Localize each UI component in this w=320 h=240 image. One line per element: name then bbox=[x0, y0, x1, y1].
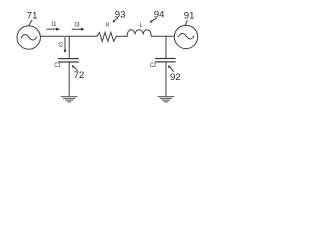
svg-text:I3: I3 bbox=[74, 22, 80, 29]
svg-text:I1: I1 bbox=[51, 21, 57, 28]
resistor R bbox=[97, 32, 117, 41]
svg-text:I2: I2 bbox=[58, 42, 63, 49]
ground (below C2) bbox=[158, 97, 174, 102]
label 92 with leader arrow bbox=[168, 65, 181, 83]
label 94 with leader arrow bbox=[149, 9, 165, 22]
node A junction vertical wire bbox=[68, 36, 70, 58]
capacitor C2 bbox=[156, 59, 176, 62]
label 72 with leader arrow bbox=[72, 65, 85, 81]
current arrow I1 bbox=[47, 21, 60, 31]
svg-text:C1: C1 bbox=[54, 62, 60, 69]
label 91 bbox=[184, 11, 195, 26]
svg-text:L: L bbox=[140, 22, 143, 29]
node B junction vertical wire bbox=[165, 36, 167, 58]
current arrow I3 bbox=[72, 22, 85, 31]
wire (C1 to ground) bbox=[68, 62, 70, 95]
ground (below C1) bbox=[61, 97, 77, 102]
svg-text:92: 92 bbox=[170, 72, 181, 83]
inductor L bbox=[127, 30, 152, 37]
svg-text:R: R bbox=[106, 22, 109, 29]
AC source U1 (left) bbox=[17, 26, 40, 49]
capacitor C1 bbox=[59, 59, 79, 62]
AC source U2 (right) bbox=[174, 25, 197, 48]
wire (source 71 to junction A) bbox=[40, 35, 69, 37]
wire (resistor to inductor) bbox=[116, 35, 127, 37]
wire (C2 to ground) bbox=[165, 62, 167, 95]
svg-text:91: 91 bbox=[184, 11, 195, 22]
wire (junction A to resistor) bbox=[69, 35, 97, 37]
current arrow I2 bbox=[58, 38, 66, 54]
label 93 with leader arrow bbox=[112, 9, 125, 22]
svg-text:72: 72 bbox=[74, 70, 85, 81]
wire (inductor to source 91) bbox=[152, 35, 175, 37]
svg-text:C2: C2 bbox=[150, 62, 156, 69]
label 71 bbox=[27, 11, 38, 26]
